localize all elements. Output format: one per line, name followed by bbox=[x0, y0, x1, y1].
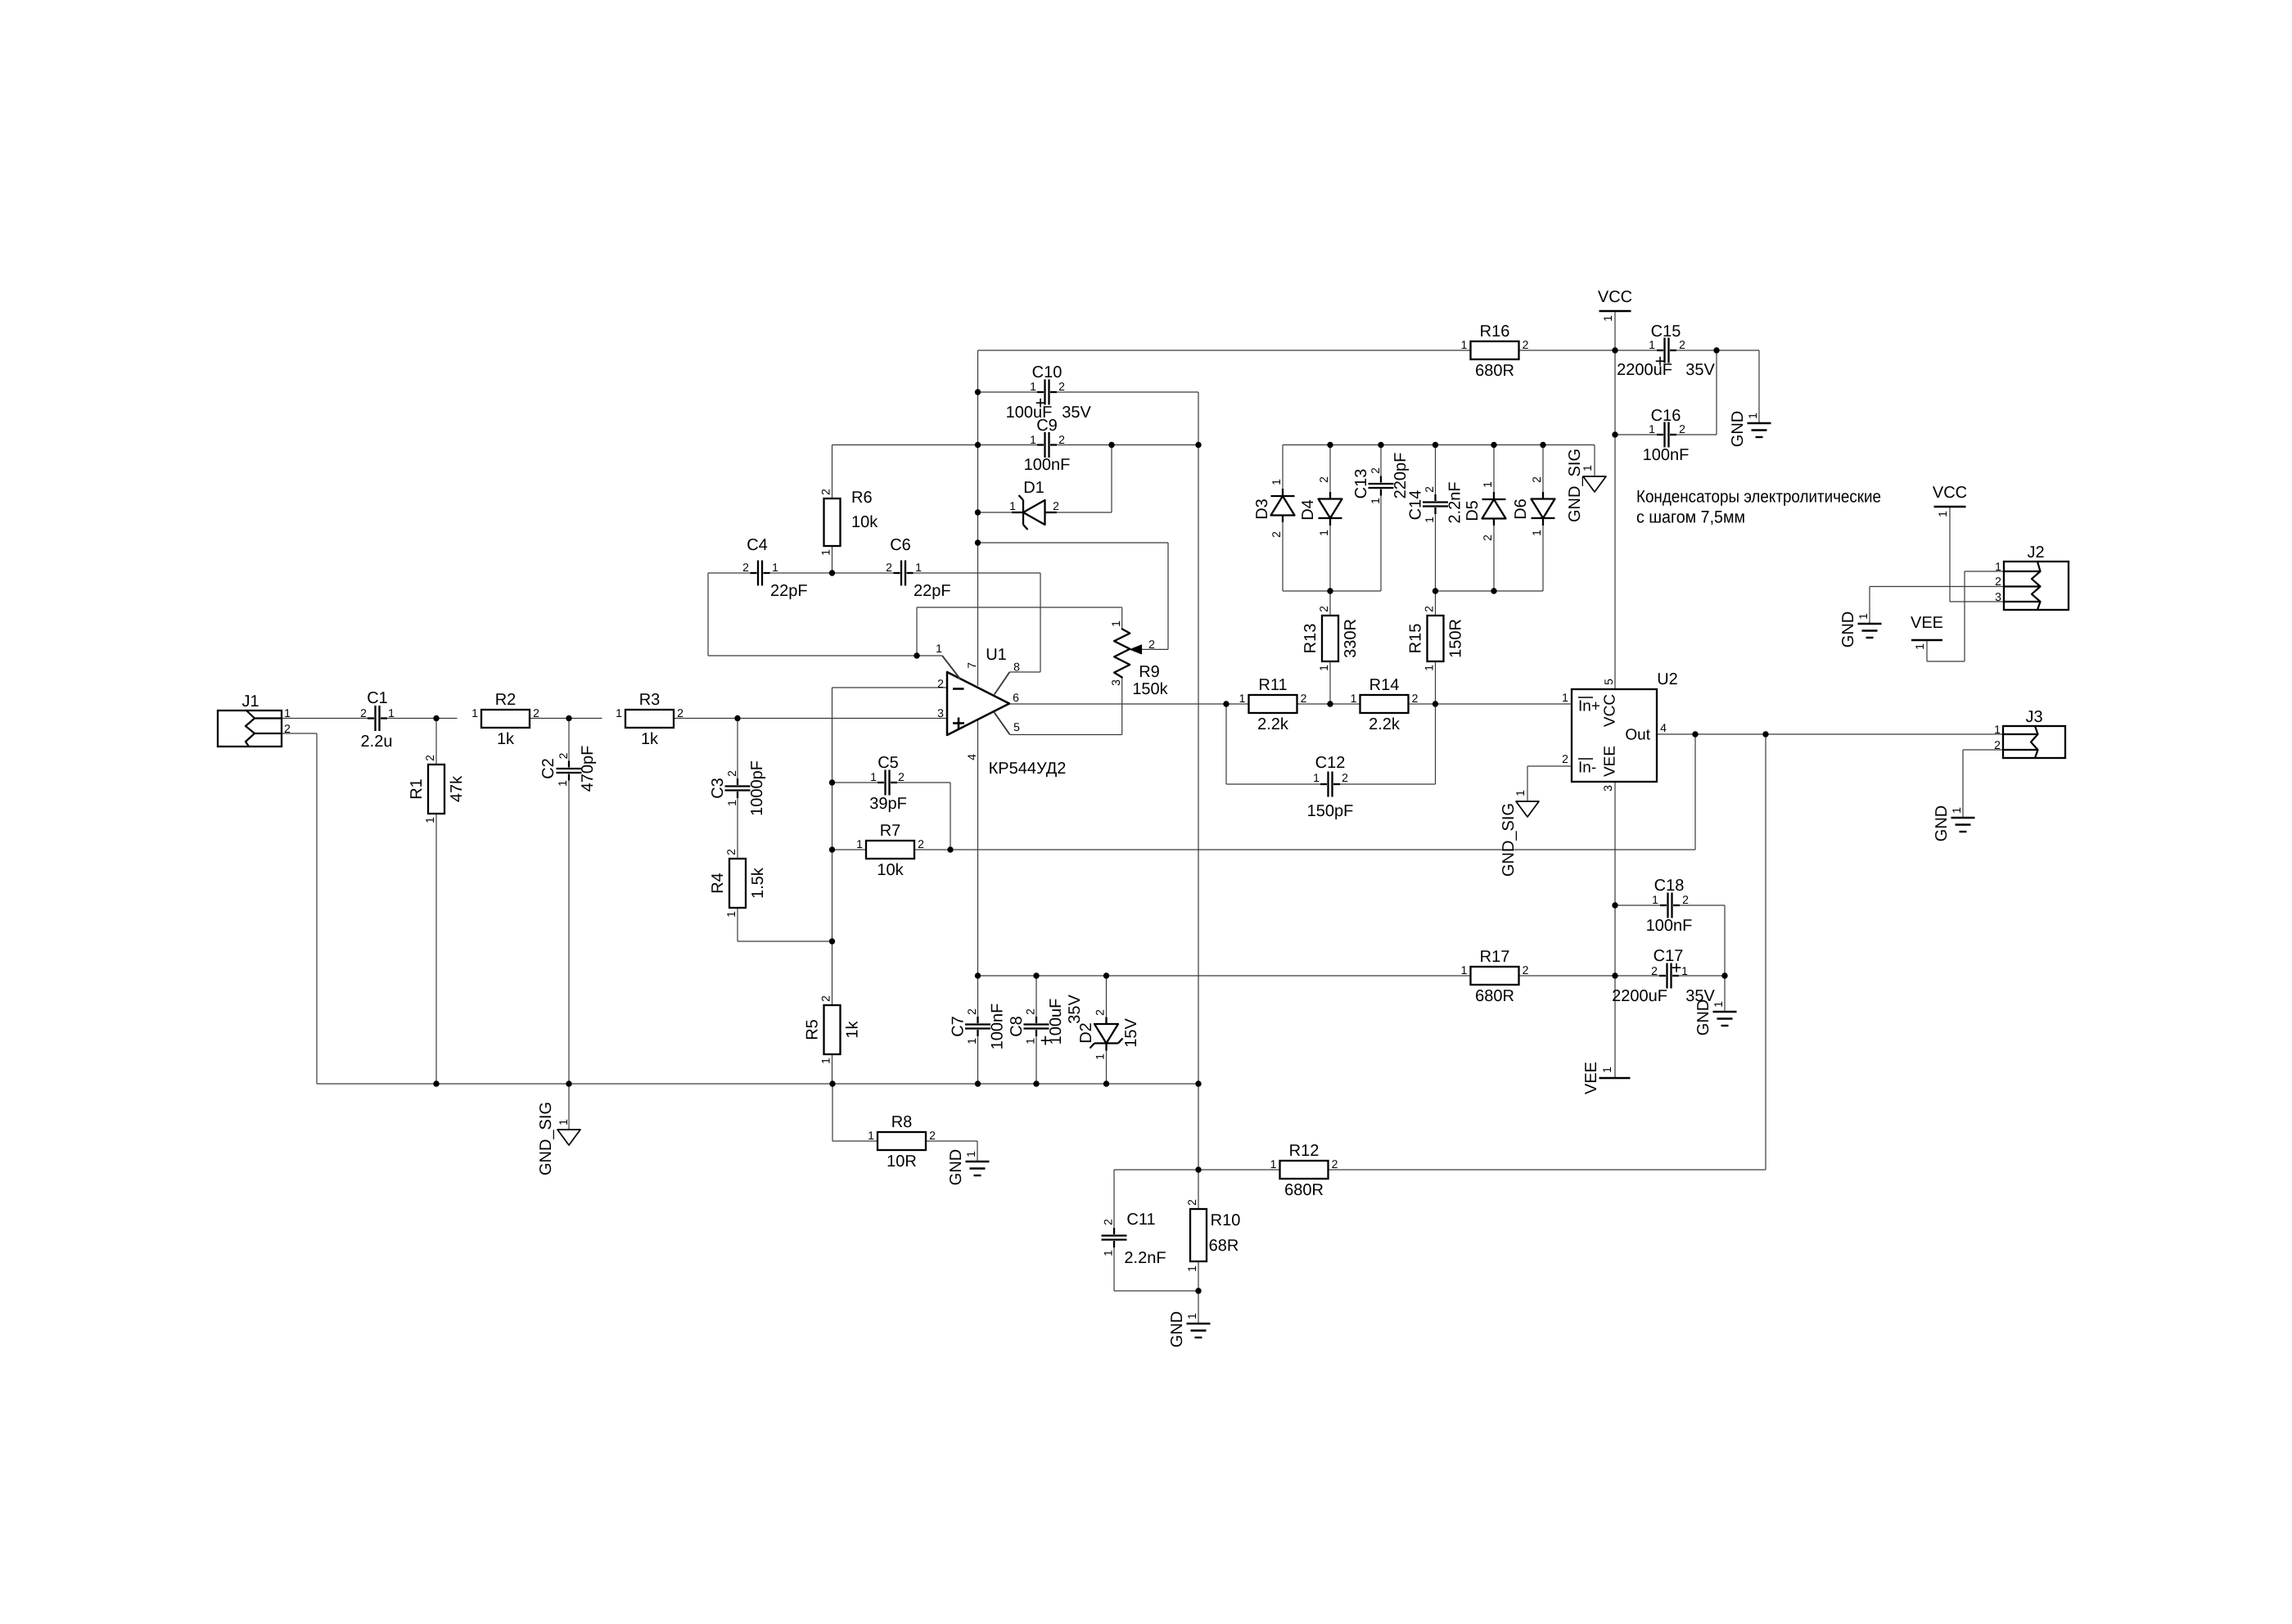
svg-text:D3: D3 bbox=[1253, 498, 1271, 520]
svg-text:VEE: VEE bbox=[1602, 746, 1619, 777]
svg-text:1.5k: 1.5k bbox=[749, 867, 767, 899]
svg-text:C1: C1 bbox=[367, 689, 388, 707]
svg-text:R7: R7 bbox=[880, 822, 901, 840]
svg-text:2: 2 bbox=[1481, 535, 1494, 541]
svg-text:2: 2 bbox=[1301, 692, 1307, 705]
svg-text:68R: 68R bbox=[1209, 1237, 1239, 1255]
svg-text:22pF: 22pF bbox=[770, 582, 808, 600]
svg-text:GND_SIG: GND_SIG bbox=[1500, 803, 1518, 877]
svg-text:2: 2 bbox=[1094, 1009, 1107, 1016]
svg-text:2: 2 bbox=[557, 752, 570, 759]
svg-text:10k: 10k bbox=[851, 513, 878, 531]
svg-text:C15: C15 bbox=[1651, 323, 1681, 341]
svg-text:2: 2 bbox=[965, 1008, 978, 1015]
svg-text:1: 1 bbox=[1009, 499, 1016, 512]
svg-text:GND: GND bbox=[1694, 999, 1712, 1035]
svg-text:15V: 15V bbox=[1122, 1018, 1140, 1048]
svg-text:In-: In- bbox=[1578, 760, 1596, 777]
svg-text:VCC: VCC bbox=[1933, 484, 1967, 502]
svg-text:1: 1 bbox=[936, 642, 942, 655]
svg-text:1: 1 bbox=[868, 1129, 874, 1142]
svg-text:Конденсаторы электролитические: Конденсаторы электролитические bbox=[1636, 488, 1881, 507]
svg-text:C6: C6 bbox=[890, 536, 911, 554]
svg-text:2: 2 bbox=[937, 677, 944, 690]
svg-text:1: 1 bbox=[725, 800, 738, 806]
svg-text:8: 8 bbox=[1013, 661, 1020, 674]
svg-text:2: 2 bbox=[1423, 486, 1436, 493]
svg-text:2: 2 bbox=[819, 489, 832, 495]
svg-text:2: 2 bbox=[1651, 964, 1658, 977]
svg-text:C4: C4 bbox=[747, 536, 768, 554]
svg-text:J3: J3 bbox=[2025, 708, 2042, 726]
svg-text:1k: 1k bbox=[844, 1020, 862, 1038]
svg-text:3: 3 bbox=[1995, 590, 2001, 603]
svg-text:1: 1 bbox=[471, 706, 478, 720]
svg-text:1: 1 bbox=[1746, 413, 1759, 419]
svg-text:1: 1 bbox=[1313, 771, 1320, 784]
svg-text:1: 1 bbox=[423, 817, 436, 823]
svg-text:1: 1 bbox=[1857, 613, 1870, 620]
svg-text:C3: C3 bbox=[709, 778, 727, 799]
svg-text:680R: 680R bbox=[1284, 1181, 1324, 1199]
svg-text:C18: C18 bbox=[1654, 877, 1685, 895]
svg-text:C14: C14 bbox=[1407, 490, 1425, 521]
svg-text:2: 2 bbox=[1317, 476, 1330, 483]
svg-text:2.2nF: 2.2nF bbox=[1124, 1249, 1166, 1267]
svg-text:J1: J1 bbox=[241, 692, 259, 710]
svg-text:1: 1 bbox=[1649, 338, 1655, 351]
svg-text:GND: GND bbox=[1839, 611, 1857, 647]
svg-text:150R: 150R bbox=[1447, 619, 1465, 658]
svg-text:1: 1 bbox=[1950, 807, 1963, 814]
svg-text:2: 2 bbox=[1024, 1008, 1037, 1015]
svg-text:2: 2 bbox=[1562, 752, 1568, 765]
svg-text:2.2nF: 2.2nF bbox=[1446, 481, 1464, 523]
svg-text:100nF: 100nF bbox=[989, 1004, 1007, 1050]
svg-text:39pF: 39pF bbox=[869, 795, 907, 813]
svg-text:150pF: 150pF bbox=[1307, 802, 1354, 820]
svg-text:1: 1 bbox=[1185, 1313, 1198, 1319]
svg-text:2: 2 bbox=[742, 561, 749, 574]
svg-text:R3: R3 bbox=[639, 691, 661, 709]
svg-text:R15: R15 bbox=[1407, 624, 1425, 654]
svg-text:2: 2 bbox=[677, 706, 684, 720]
svg-text:5: 5 bbox=[1013, 720, 1020, 733]
svg-text:150k: 150k bbox=[1132, 680, 1168, 698]
svg-text:D6: D6 bbox=[1512, 498, 1530, 520]
svg-text:2: 2 bbox=[1102, 1219, 1115, 1225]
svg-text:C16: C16 bbox=[1651, 407, 1681, 425]
svg-text:R2: R2 bbox=[495, 691, 517, 709]
svg-text:C2: C2 bbox=[539, 758, 557, 779]
svg-text:1: 1 bbox=[1109, 620, 1122, 627]
svg-text:D1: D1 bbox=[1023, 479, 1044, 497]
svg-text:2: 2 bbox=[1423, 606, 1436, 612]
svg-text:4: 4 bbox=[1660, 721, 1667, 734]
svg-text:2: 2 bbox=[1369, 467, 1382, 474]
svg-text:1: 1 bbox=[1317, 530, 1330, 536]
svg-text:VEE: VEE bbox=[1582, 1062, 1600, 1094]
svg-text:2: 2 bbox=[1053, 499, 1059, 512]
svg-text:2: 2 bbox=[1332, 1157, 1338, 1171]
svg-text:100nF: 100nF bbox=[1646, 917, 1693, 935]
svg-text:1: 1 bbox=[819, 1058, 832, 1064]
svg-text:1: 1 bbox=[1600, 1067, 1613, 1073]
svg-text:7: 7 bbox=[965, 662, 978, 669]
svg-text:1: 1 bbox=[1649, 422, 1655, 435]
svg-text:R14: R14 bbox=[1369, 676, 1400, 694]
svg-text:2: 2 bbox=[1270, 531, 1283, 538]
svg-text:1: 1 bbox=[1423, 665, 1436, 671]
svg-text:D4: D4 bbox=[1299, 499, 1317, 521]
svg-text:VEE: VEE bbox=[1911, 614, 1943, 632]
svg-text:C8: C8 bbox=[1008, 1016, 1026, 1037]
svg-text:1k: 1k bbox=[497, 730, 515, 748]
svg-text:1: 1 bbox=[1102, 1250, 1115, 1256]
svg-text:VCC: VCC bbox=[1598, 288, 1632, 306]
svg-text:1: 1 bbox=[1652, 893, 1658, 906]
svg-text:1: 1 bbox=[964, 1151, 977, 1157]
svg-text:Out: Out bbox=[1625, 727, 1650, 744]
svg-text:C12: C12 bbox=[1315, 754, 1346, 772]
svg-text:2.2k: 2.2k bbox=[1369, 715, 1401, 733]
svg-text:2: 2 bbox=[1342, 771, 1348, 784]
svg-text:1: 1 bbox=[1461, 963, 1468, 977]
svg-text:10R: 10R bbox=[887, 1153, 917, 1171]
svg-text:2: 2 bbox=[1058, 380, 1065, 393]
svg-text:2: 2 bbox=[1523, 338, 1529, 351]
svg-text:1: 1 bbox=[1562, 691, 1568, 704]
svg-text:C13: C13 bbox=[1352, 469, 1370, 499]
svg-text:2200uF: 2200uF bbox=[1612, 987, 1667, 1005]
svg-text:3: 3 bbox=[1109, 679, 1122, 686]
svg-text:100nF: 100nF bbox=[1024, 456, 1071, 474]
svg-text:1: 1 bbox=[1030, 380, 1036, 393]
svg-text:1: 1 bbox=[1094, 1053, 1107, 1060]
svg-text:D2: D2 bbox=[1077, 1022, 1095, 1044]
svg-text:R5: R5 bbox=[804, 1019, 822, 1040]
svg-text:1: 1 bbox=[1423, 517, 1436, 523]
svg-text:1: 1 bbox=[1601, 315, 1614, 322]
svg-text:R11: R11 bbox=[1258, 676, 1287, 694]
svg-text:R10: R10 bbox=[1211, 1211, 1241, 1229]
svg-text:1: 1 bbox=[1185, 1265, 1198, 1272]
svg-text:100nF: 100nF bbox=[1643, 446, 1690, 464]
svg-text:U2: U2 bbox=[1657, 670, 1678, 688]
svg-text:2.2u: 2.2u bbox=[361, 733, 393, 751]
svg-text:2: 2 bbox=[1317, 606, 1330, 612]
svg-text:2: 2 bbox=[929, 1129, 936, 1142]
svg-text:с шагом 7,5мм: с шагом 7,5мм bbox=[1636, 508, 1745, 527]
svg-text:GND_SIG: GND_SIG bbox=[1566, 449, 1584, 522]
svg-text:1: 1 bbox=[1712, 1001, 1725, 1008]
svg-text:2: 2 bbox=[1530, 476, 1543, 483]
svg-text:1: 1 bbox=[1581, 465, 1594, 471]
svg-text:4: 4 bbox=[965, 754, 978, 760]
svg-text:In+: In+ bbox=[1578, 698, 1600, 715]
svg-text:2: 2 bbox=[423, 755, 436, 761]
svg-text:C17: C17 bbox=[1654, 947, 1684, 965]
svg-text:2: 2 bbox=[1679, 422, 1685, 435]
svg-text:R6: R6 bbox=[851, 489, 873, 507]
svg-text:1: 1 bbox=[557, 1119, 570, 1126]
svg-text:1: 1 bbox=[1369, 498, 1382, 504]
svg-text:2: 2 bbox=[886, 561, 892, 574]
svg-text:2: 2 bbox=[819, 995, 832, 1002]
svg-text:2: 2 bbox=[918, 837, 924, 850]
svg-text:2: 2 bbox=[284, 722, 291, 735]
svg-text:2: 2 bbox=[1682, 893, 1689, 906]
svg-text:680R: 680R bbox=[1475, 987, 1514, 1005]
svg-text:2: 2 bbox=[360, 706, 367, 720]
svg-text:3: 3 bbox=[937, 706, 944, 720]
svg-text:VCC: VCC bbox=[1602, 694, 1619, 727]
svg-text:1: 1 bbox=[856, 837, 863, 850]
svg-text:2: 2 bbox=[724, 849, 738, 855]
svg-text:1: 1 bbox=[1994, 723, 2001, 736]
svg-text:R16: R16 bbox=[1480, 323, 1510, 341]
svg-text:2: 2 bbox=[1995, 575, 2001, 588]
svg-text:1: 1 bbox=[965, 1038, 978, 1044]
svg-text:U1: U1 bbox=[986, 646, 1007, 664]
svg-text:R12: R12 bbox=[1289, 1142, 1320, 1160]
svg-text:1000pF: 1000pF bbox=[748, 760, 766, 816]
svg-text:2: 2 bbox=[1679, 338, 1685, 351]
svg-text:22pF: 22pF bbox=[914, 582, 951, 600]
svg-text:1: 1 bbox=[1351, 692, 1357, 705]
svg-text:C7: C7 bbox=[950, 1016, 968, 1037]
svg-text:1: 1 bbox=[1270, 1157, 1277, 1171]
svg-text:6: 6 bbox=[1013, 691, 1019, 704]
svg-text:2: 2 bbox=[725, 770, 738, 777]
svg-text:1: 1 bbox=[1461, 338, 1468, 351]
svg-text:R1: R1 bbox=[408, 778, 426, 800]
svg-text:1: 1 bbox=[1995, 560, 2001, 573]
svg-text:1: 1 bbox=[1530, 530, 1543, 536]
svg-text:R9: R9 bbox=[1139, 663, 1160, 681]
svg-text:C10: C10 bbox=[1032, 363, 1063, 381]
svg-text:КР544УД2: КР544УД2 bbox=[989, 760, 1067, 778]
svg-text:C11: C11 bbox=[1126, 1211, 1155, 1229]
svg-text:330R: 330R bbox=[1342, 619, 1360, 658]
svg-text:1: 1 bbox=[724, 911, 738, 918]
svg-text:1: 1 bbox=[1514, 790, 1527, 796]
svg-text:GND: GND bbox=[1729, 411, 1747, 447]
svg-text:10k: 10k bbox=[877, 861, 904, 879]
svg-text:1: 1 bbox=[1030, 433, 1036, 446]
svg-text:47k: 47k bbox=[448, 775, 466, 802]
svg-text:2: 2 bbox=[1412, 692, 1419, 705]
svg-text:C9: C9 bbox=[1036, 417, 1058, 435]
svg-text:2200uF: 2200uF bbox=[1617, 361, 1672, 379]
svg-text:35V: 35V bbox=[1062, 404, 1091, 422]
svg-text:GND: GND bbox=[1168, 1311, 1186, 1347]
svg-text:1: 1 bbox=[1481, 481, 1494, 488]
svg-text:1: 1 bbox=[1913, 643, 1926, 650]
svg-text:J2: J2 bbox=[2027, 544, 2044, 562]
svg-text:1: 1 bbox=[388, 706, 395, 720]
svg-text:1: 1 bbox=[772, 561, 778, 574]
svg-text:1: 1 bbox=[819, 549, 832, 556]
svg-text:35V: 35V bbox=[1066, 995, 1084, 1024]
svg-text:1: 1 bbox=[1270, 479, 1283, 485]
svg-text:2: 2 bbox=[1523, 963, 1529, 977]
svg-text:470pF: 470pF bbox=[579, 746, 597, 792]
svg-text:GND: GND bbox=[1933, 805, 1951, 841]
svg-text:3: 3 bbox=[1601, 785, 1614, 792]
svg-text:1: 1 bbox=[616, 706, 622, 720]
svg-text:R8: R8 bbox=[891, 1113, 913, 1131]
svg-text:1: 1 bbox=[556, 780, 569, 787]
svg-text:1k: 1k bbox=[641, 730, 659, 748]
svg-text:5: 5 bbox=[1602, 679, 1615, 685]
svg-text:2: 2 bbox=[898, 770, 905, 783]
svg-text:GND: GND bbox=[947, 1149, 965, 1185]
svg-text:2: 2 bbox=[1185, 1199, 1198, 1206]
svg-text:C5: C5 bbox=[878, 754, 899, 772]
svg-text:1: 1 bbox=[284, 706, 291, 720]
svg-text:1: 1 bbox=[915, 561, 922, 574]
svg-text:1: 1 bbox=[870, 770, 877, 783]
svg-text:2: 2 bbox=[1148, 638, 1155, 651]
svg-text:2: 2 bbox=[1058, 433, 1065, 446]
svg-text:1: 1 bbox=[1239, 692, 1246, 705]
svg-text:R4: R4 bbox=[709, 873, 727, 894]
svg-text:1: 1 bbox=[1024, 1038, 1037, 1044]
svg-text:R13: R13 bbox=[1302, 624, 1320, 654]
svg-text:D5: D5 bbox=[1464, 500, 1482, 521]
svg-text:1: 1 bbox=[1936, 511, 1949, 517]
svg-text:R17: R17 bbox=[1480, 948, 1510, 966]
svg-text:1: 1 bbox=[1681, 964, 1688, 977]
svg-text:680R: 680R bbox=[1475, 362, 1514, 380]
svg-text:2.2k: 2.2k bbox=[1257, 715, 1289, 733]
svg-text:2: 2 bbox=[1994, 738, 2001, 751]
svg-text:35V: 35V bbox=[1685, 361, 1715, 379]
svg-text:+: + bbox=[1040, 1031, 1051, 1051]
svg-text:2: 2 bbox=[533, 706, 539, 720]
svg-text:1: 1 bbox=[1317, 665, 1330, 671]
svg-text:GND_SIG: GND_SIG bbox=[537, 1102, 555, 1175]
